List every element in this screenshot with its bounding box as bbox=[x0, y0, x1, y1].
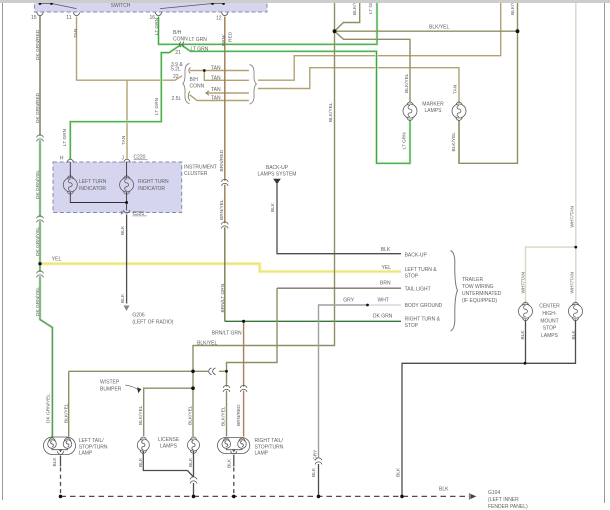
svg-text:12: 12 bbox=[216, 16, 222, 22]
svg-text:BRN/RED: BRN/RED bbox=[236, 404, 242, 426]
svg-text:STOP/TURN: STOP/TURN bbox=[255, 444, 284, 450]
svg-text:YEL: YEL bbox=[382, 265, 392, 271]
svg-text:LT GRN: LT GRN bbox=[401, 132, 407, 150]
svg-text:CONN: CONN bbox=[190, 83, 205, 89]
svg-text:INSTRUMENT: INSTRUMENT bbox=[184, 164, 217, 170]
svg-text:BLK: BLK bbox=[120, 225, 126, 235]
svg-text:GRY: GRY bbox=[343, 297, 354, 303]
svg-text:G206: G206 bbox=[132, 313, 144, 319]
svg-text:MARKER: MARKER bbox=[422, 101, 444, 107]
svg-text:BLK/YEL: BLK/YEL bbox=[328, 102, 334, 122]
svg-text:TAN: TAN bbox=[211, 87, 221, 93]
svg-text:UNTERMINATED: UNTERMINATED bbox=[462, 291, 502, 297]
svg-text:CLUSTER: CLUSTER bbox=[184, 171, 208, 177]
svg-text:2.5L: 2.5L bbox=[172, 96, 182, 102]
svg-text:STOP: STOP bbox=[405, 323, 419, 329]
svg-text:LAMPS SYSTEM: LAMPS SYSTEM bbox=[258, 172, 297, 178]
svg-text:BLK: BLK bbox=[188, 457, 194, 467]
svg-text:(LEFT INNER: (LEFT INNER bbox=[488, 497, 519, 503]
svg-text:DK GRN: DK GRN bbox=[373, 314, 393, 320]
svg-text:5.2L: 5.2L bbox=[171, 67, 181, 73]
svg-text:RIGHT TAIL/: RIGHT TAIL/ bbox=[255, 438, 284, 444]
svg-text:WHT: WHT bbox=[378, 297, 389, 303]
svg-text:FENDER PANEL): FENDER PANEL) bbox=[488, 504, 528, 510]
svg-text:BLK: BLK bbox=[120, 293, 126, 303]
svg-text:RIGHT TURN: RIGHT TURN bbox=[138, 179, 169, 185]
svg-text:HIGH-: HIGH- bbox=[542, 311, 557, 317]
svg-text:BACK-UP: BACK-UP bbox=[405, 253, 428, 259]
svg-text:BLK: BLK bbox=[311, 467, 317, 477]
svg-text:WHT/TAN: WHT/TAN bbox=[569, 205, 575, 227]
svg-text:BLK/YEL: BLK/YEL bbox=[404, 73, 410, 93]
svg-text:LAMP: LAMP bbox=[79, 451, 93, 457]
svg-text:(LEFT OF RADIO): (LEFT OF RADIO) bbox=[132, 320, 173, 326]
svg-text:G104: G104 bbox=[488, 490, 500, 496]
svg-text:BACK-UP: BACK-UP bbox=[266, 165, 289, 171]
svg-text:DK GRN/YEL: DK GRN/YEL bbox=[35, 170, 41, 199]
svg-text:INDICATOR: INDICATOR bbox=[79, 186, 106, 192]
svg-text:LT GRN: LT GRN bbox=[154, 17, 160, 35]
svg-text:LT GRN: LT GRN bbox=[191, 46, 209, 52]
svg-text:STOP/TURN: STOP/TURN bbox=[79, 444, 108, 450]
svg-text:LT GRN: LT GRN bbox=[154, 97, 160, 115]
svg-text:BLK: BLK bbox=[270, 202, 276, 212]
svg-text:BRN/YEL: BRN/YEL bbox=[219, 199, 225, 220]
svg-text:LAMPS: LAMPS bbox=[425, 108, 443, 114]
svg-text:(IF EQUIPPED): (IF EQUIPPED) bbox=[462, 298, 497, 304]
svg-text:BRN/LT GRN: BRN/LT GRN bbox=[220, 283, 226, 312]
svg-text:DK GRN/YEL: DK GRN/YEL bbox=[35, 227, 41, 256]
svg-text:DK GRN/RED: DK GRN/RED bbox=[35, 92, 41, 123]
svg-text:BRN/RED: BRN/RED bbox=[219, 149, 225, 171]
svg-text:SWITCH: SWITCH bbox=[111, 3, 131, 9]
svg-text:BLK: BLK bbox=[52, 457, 58, 467]
svg-text:DK GRN/YEL: DK GRN/YEL bbox=[45, 394, 51, 423]
svg-text:BLK/YEL: BLK/YEL bbox=[188, 405, 194, 425]
svg-text:B/H: B/H bbox=[173, 30, 182, 36]
svg-text:BLK: BLK bbox=[138, 457, 144, 467]
svg-text:DK GRN/RED: DK GRN/RED bbox=[35, 29, 41, 60]
svg-text:BLK/YEL: BLK/YEL bbox=[64, 403, 70, 423]
svg-text:INDICATOR: INDICATOR bbox=[138, 186, 165, 192]
svg-text:BODY GROUND: BODY GROUND bbox=[405, 303, 443, 309]
svg-text:STOP: STOP bbox=[405, 273, 419, 279]
svg-text:BLK/YEL: BLK/YEL bbox=[429, 25, 450, 31]
svg-text:BLK: BLK bbox=[396, 467, 402, 477]
svg-text:TAN: TAN bbox=[211, 95, 221, 101]
svg-text:BLK/YEL: BLK/YEL bbox=[197, 341, 218, 347]
svg-text:LEFT TAIL/: LEFT TAIL/ bbox=[79, 438, 105, 444]
svg-text:LT GRN: LT GRN bbox=[62, 128, 68, 146]
svg-text:LAMP: LAMP bbox=[255, 451, 269, 457]
svg-text:F: F bbox=[120, 211, 123, 217]
svg-text:BLK: BLK bbox=[227, 458, 233, 468]
svg-text:GRY: GRY bbox=[312, 449, 318, 460]
svg-text:22: 22 bbox=[173, 74, 179, 80]
svg-text:TAN: TAN bbox=[452, 84, 458, 94]
svg-text:BLK: BLK bbox=[439, 487, 449, 493]
svg-text:21: 21 bbox=[175, 50, 181, 56]
svg-text:DK GRN/YEL: DK GRN/YEL bbox=[35, 287, 41, 316]
svg-text:H: H bbox=[60, 156, 64, 162]
svg-text:11: 11 bbox=[66, 15, 71, 21]
svg-text:BLK: BLK bbox=[381, 247, 391, 253]
svg-text:RED: RED bbox=[227, 31, 233, 42]
svg-text:WHT/TAN: WHT/TAN bbox=[521, 271, 527, 293]
svg-text:TAN: TAN bbox=[73, 28, 79, 38]
svg-text:TOW WIRING: TOW WIRING bbox=[462, 284, 494, 290]
svg-text:TRAILER: TRAILER bbox=[462, 277, 484, 283]
svg-text:BRN/LT GRN: BRN/LT GRN bbox=[212, 330, 242, 336]
svg-text:BLK/YEL: BLK/YEL bbox=[138, 405, 144, 425]
svg-text:BRN: BRN bbox=[380, 281, 391, 287]
svg-text:LICENSE: LICENSE bbox=[158, 437, 180, 443]
svg-text:LAMPS: LAMPS bbox=[160, 444, 178, 450]
svg-text:LAMPS: LAMPS bbox=[541, 333, 559, 339]
svg-text:BUMPER: BUMPER bbox=[100, 386, 122, 392]
svg-text:LT GRN: LT GRN bbox=[189, 37, 207, 43]
svg-text:TAN: TAN bbox=[211, 65, 221, 71]
svg-text:LEFT TURN &: LEFT TURN & bbox=[405, 267, 438, 273]
svg-text:W/STEP: W/STEP bbox=[100, 379, 120, 385]
svg-text:RIGHT TURN &: RIGHT TURN & bbox=[405, 317, 441, 323]
svg-text:CENTER: CENTER bbox=[539, 304, 560, 310]
svg-text:BLK: BLK bbox=[520, 330, 526, 340]
svg-text:MOUNT: MOUNT bbox=[540, 318, 558, 324]
svg-text:STOP: STOP bbox=[543, 326, 557, 332]
svg-text:TAN: TAN bbox=[211, 75, 221, 81]
svg-text:BLK/YEL: BLK/YEL bbox=[221, 406, 227, 426]
svg-text:YEL: YEL bbox=[52, 256, 62, 262]
svg-text:15: 15 bbox=[31, 15, 37, 21]
svg-text:TAN: TAN bbox=[121, 135, 127, 145]
svg-text:BRN/: BRN/ bbox=[221, 34, 227, 46]
svg-text:TAIL LIGHT: TAIL LIGHT bbox=[405, 286, 431, 292]
svg-text:WHT/TAN: WHT/TAN bbox=[569, 271, 575, 293]
svg-text:BLK: BLK bbox=[571, 330, 577, 340]
svg-text:LEFT TURN: LEFT TURN bbox=[79, 179, 107, 185]
svg-text:B/H: B/H bbox=[190, 77, 199, 83]
svg-text:BLK/YEL: BLK/YEL bbox=[451, 132, 457, 152]
